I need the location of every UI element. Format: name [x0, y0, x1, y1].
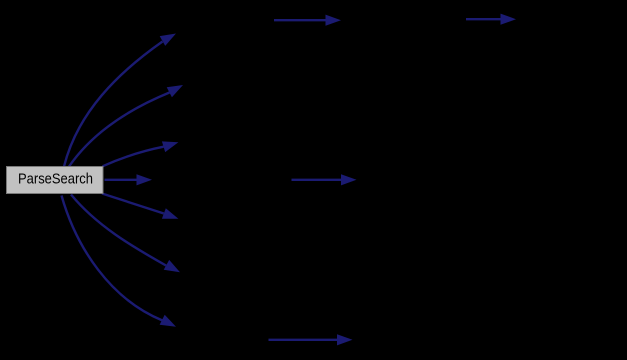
arrowhead edge5 [162, 208, 179, 219]
wire edge4 ParseSearch to node4 [105, 179, 137, 181]
wire edge6 curve ParseSearch to node6 [71, 195, 166, 266]
arrowhead edge6 [164, 260, 180, 272]
wire edge1 curve ParseSearch to node1 [64, 42, 163, 167]
wire edge9 node8 to node9 [466, 18, 501, 20]
arrowhead edge2 [167, 85, 183, 97]
arrowhead edge11 [337, 334, 353, 345]
svg-text:ParseSearch: ParseSearch [18, 171, 93, 188]
wire edge10 node4 to node10 [292, 179, 342, 181]
wire edge2 curve ParseSearch to node2 [69, 93, 170, 167]
wire edge8 node1 to node8 [274, 19, 326, 21]
arrowhead edge4 [137, 174, 153, 185]
arrowhead edge7 [160, 315, 176, 327]
wire edge5 ParseSearch to node5 [102, 194, 164, 214]
node ParseSearch box [7, 167, 104, 194]
arrowhead edge10 [341, 174, 357, 185]
arrowhead edge8 [326, 15, 342, 26]
arrowhead edge1 [160, 34, 176, 46]
wire edge7 curve ParseSearch to node7 [62, 196, 163, 321]
wire edge3 ParseSearch to node3 [103, 147, 164, 167]
arrowhead edge3 [162, 141, 179, 152]
wire edge11 node7 to node11 [269, 339, 338, 341]
arrowhead edge9 [501, 14, 517, 25]
